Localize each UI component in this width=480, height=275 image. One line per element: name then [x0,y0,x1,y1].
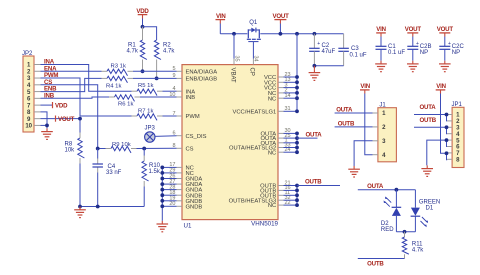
wire ENB to IC [128,77,134,79]
resistor R2 [154,40,161,60]
svg-text:VIN: VIN [376,26,386,33]
junction R2-ENB [155,77,159,81]
svg-text:ENA/DIAGA: ENA/DIAGA [186,69,218,75]
svg-text:10: 10 [169,92,175,98]
resistor R7 [137,114,157,121]
resistor R2 leads [156,60,158,79]
resistor R11 leads [404,232,406,237]
svg-text:VIN: VIN [436,83,446,90]
svg-text:OUTA: OUTA [367,183,384,190]
svg-text:VOUT: VOUT [273,13,290,20]
svg-text:+: + [448,41,451,47]
resistor R1 leads [142,27,144,40]
resistor R8 [78,138,85,158]
svg-text:NC: NC [268,96,276,102]
JP2 pin stubs [34,64,41,66]
wire PWM to IC [157,115,163,117]
svg-text:47uF: 47uF [322,49,336,55]
junction JP1 VIN [445,151,449,155]
wire JP2 pin10 gnd [41,124,48,126]
svg-text:VOUT: VOUT [437,26,454,33]
wire net INB [41,97,110,98]
svg-text:1.5k: 1.5k [149,169,161,175]
wire ENA to IC [128,70,134,72]
resistor R10 [142,161,149,181]
wire VIN to JP1 pins 7-8 [441,94,447,154]
wire J1 pin3 gnd [354,141,372,166]
resistor R10 leads [143,149,145,156]
wire rail right [260,33,343,35]
svg-text:R11: R11 [412,241,423,247]
node VOUT label [55,116,57,122]
connector J1 [378,108,397,162]
svg-text:PWM: PWM [186,114,200,120]
ground J1 [353,166,355,169]
wire VDD stub [41,104,53,106]
resistor R4 [107,76,128,83]
svg-text:C4: C4 [108,164,116,170]
jumper JP3 [145,132,155,142]
wire VDD to R2 [143,27,157,40]
diode D2 [392,206,402,208]
svg-text:4.7k: 4.7k [127,49,139,55]
wire JP1 gnd pins 5-6 [427,140,447,165]
IC U1 left pins [177,70,183,72]
svg-text:JP3: JP3 [145,126,156,132]
wire OUTA LED top [358,189,416,191]
wire VBAT drop [233,34,235,59]
ground JP1 [426,165,428,168]
wire INA to IC [157,90,163,92]
wire net VOUT [41,118,81,120]
svg-text:VCC/HEATSLG1: VCC/HEATSLG1 [232,109,276,115]
svg-text:R1: R1 [128,42,136,48]
svg-text:+: + [317,41,320,47]
svg-text:OUTA: OUTA [336,107,353,114]
svg-text:U1: U1 [184,223,192,230]
svg-text:D2: D2 [381,221,389,227]
svg-text:C2B: C2B [420,44,432,50]
wire CP gate [252,42,254,59]
svg-text:VDD: VDD [55,102,68,109]
wire C2 C3 bottoms [314,65,343,67]
svg-text:R7 1k: R7 1k [138,109,153,115]
junction VCCbus rail [295,32,299,36]
node VDD label [52,102,54,108]
wire OUTB to J1 pin2 [335,126,373,128]
svg-text:NC: NC [268,203,276,209]
svg-text:33 nF: 33 nF [106,170,122,176]
junction VDD split [141,25,145,29]
ground filter rail [79,207,81,210]
capacitor C2 [313,34,315,49]
svg-text:OUTA: OUTA [306,131,323,138]
wire D1 bottom lead [414,216,416,232]
svg-text:C2C: C2C [452,44,465,50]
svg-text:R5 1k: R5 1k [138,83,153,89]
svg-text:VBAT: VBAT [229,68,235,84]
junction LED top [395,188,399,192]
resistor R11 [402,237,409,254]
wire net PWM [41,78,132,116]
svg-text:C1: C1 [388,44,396,50]
junction CS right [142,147,146,151]
svg-text:5: 5 [172,66,175,72]
junction VBAT rail [232,32,236,36]
svg-text:4.7k: 4.7k [412,248,424,254]
svg-text:CP: CP [249,68,255,76]
svg-text:R9 10k: R9 10k [112,142,131,148]
wire OUTB bus [296,186,298,206]
wire VCC bus [296,34,298,112]
wire LED bottom [396,231,415,233]
IC pin CP [252,59,254,65]
svg-text:10k: 10k [65,148,76,154]
svg-text:VOUT: VOUT [58,116,75,123]
wire net INA [41,65,132,92]
svg-text:GNDB: GNDB [186,204,203,210]
wire VDD vertical [142,19,144,27]
diode D1 [411,208,420,216]
IC U1 body [182,65,278,220]
svg-text:R10: R10 [149,163,161,169]
junction JP1 OUTB [445,125,449,129]
svg-text:NP: NP [420,50,428,56]
svg-text:R2: R2 [163,42,171,48]
wire D2 bottom lead [395,216,397,232]
wire VIN to J1 pin4 [365,94,373,155]
svg-text:INB: INB [186,95,196,101]
wire net ENA [41,70,102,72]
svg-text:R4 1k: R4 1k [106,83,121,89]
wire OUTA to J1 pin1 [335,112,373,114]
junction R1-ENA [141,69,145,73]
wire OUTB to JP1 pins 3-4 [414,126,447,128]
wire OUTB LED [358,258,405,260]
svg-text:R6 1k: R6 1k [118,101,133,107]
svg-text:INB: INB [44,93,55,100]
wire INB to IC [135,96,141,98]
svg-text:RED: RED [381,227,394,233]
junction CS left [96,147,100,151]
junction VOUT-R8 [78,117,82,121]
connector JP1 [452,107,464,167]
IC pin VBAT [233,59,235,65]
svg-text:JP2: JP2 [22,51,33,57]
svg-text:+: + [416,41,419,47]
wire OUTA bus [296,133,298,152]
resistor R1 [140,40,147,60]
junction rail C4 [96,205,100,209]
svg-text:VIN: VIN [360,83,370,90]
svg-text:R8: R8 [65,141,73,147]
svg-text:8: 8 [172,143,175,149]
svg-text:NC: NC [268,150,276,156]
svg-text:OUTB: OUTB [305,179,322,186]
svg-text:D1: D1 [426,206,434,212]
wire IC GND bus [161,167,163,220]
junction JP1 GND [445,138,449,142]
svg-text:C2: C2 [322,43,330,49]
svg-text:0.1 uF: 0.1 uF [388,50,405,56]
svg-text:JP1: JP1 [452,102,463,108]
resistor R9 [111,146,131,153]
wire VIN drop [219,24,221,34]
wire D2 top lead [395,190,397,208]
svg-text:GREEN: GREEN [419,199,440,205]
IC U1 right pins [278,76,284,78]
svg-text:VOUT: VOUT [405,26,422,33]
wire gnd rail [80,206,144,208]
resistor R8 leads [79,119,81,133]
svg-text:C3: C3 [351,46,359,52]
junction LED bottom [403,230,407,234]
svg-text:CS: CS [186,146,194,152]
svg-text:ENB/DIAGB: ENB/DIAGB [186,77,218,83]
capacitor C4 [92,163,103,165]
resistor R6 [115,95,135,102]
wire net ENB [41,78,102,91]
svg-text:7: 7 [172,111,175,117]
ground IC pins [161,221,163,224]
svg-text:9: 9 [172,73,175,79]
svg-text:VHN5019: VHN5019 [251,221,278,228]
svg-text:4.7k: 4.7k [163,49,175,55]
svg-text:R3 1k: R3 1k [111,64,126,70]
ground C2C3 [313,66,315,70]
junction JP1 OUTA [445,113,449,117]
resistor R3 [107,69,128,76]
svg-text:NP: NP [452,50,460,56]
svg-text:CS_DIS: CS_DIS [186,134,207,140]
wire rail gnd stub [79,206,81,208]
junction C2 rail [313,32,317,36]
svg-text:10: 10 [25,123,32,130]
connector JP2 [23,56,34,132]
capacitor C3 [343,34,345,49]
wire JP3 to IC [155,135,177,138]
svg-text:OUTB: OUTB [420,117,437,124]
svg-text:OUTB: OUTB [367,261,384,268]
wire CS row right [131,148,137,150]
svg-text:J1: J1 [379,102,386,108]
svg-text:6: 6 [172,131,175,137]
junction JP2 gnd [45,124,49,128]
ground JP2 [46,128,48,131]
capacitor C4 leads [97,149,99,159]
svg-text:OUTB: OUTB [338,121,355,128]
wire D1 top lead [414,190,416,208]
wire OUTA to JP1 pins 1-2 [414,114,447,116]
svg-text:Q1: Q1 [249,20,258,26]
wire JP2 pin8 gnd [41,112,48,126]
junction VOUT rail [279,32,283,36]
junction C2 gnd [313,64,317,68]
svg-text:0.1 uF: 0.1 uF [350,52,367,58]
junction rail R8 [78,205,82,209]
wire net CS [41,85,98,149]
svg-text:VIN: VIN [216,13,226,20]
wire CS row left [98,148,106,150]
wire VOUT drop [279,24,281,34]
resistor R5 [137,89,157,96]
svg-text:OUTA: OUTA [420,104,437,111]
